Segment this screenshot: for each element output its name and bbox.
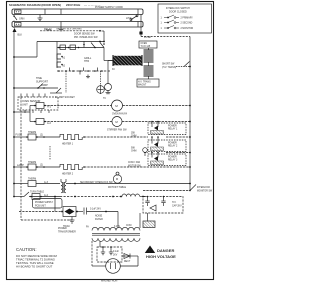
svg-text:0.1uF: 0.1uF: [113, 251, 119, 253]
svg-text:RELAY 1: RELAY 1: [168, 128, 178, 131]
svg-text:MOTOR SW: MOTOR SW: [128, 166, 142, 168]
svg-text:(2): (2): [40, 165, 43, 167]
svg-text:SCHEMATIC DIAGRAM (DOOR OPEN): SCHEMATIC DIAGRAM (DOOR OPEN): [9, 3, 61, 7]
svg-text:HIGH VOLTAGE: HIGH VOLTAGE: [146, 254, 176, 259]
svg-text:RELAY: RELAY: [44, 28, 52, 31]
svg-text:TURN TABLE: TURN TABLE: [30, 191, 45, 194]
svg-text:A1: A1: [62, 57, 66, 60]
svg-text:UNIT: UNIT: [22, 104, 28, 107]
svg-text:STIRRER FAN SW: STIRRER FAN SW: [107, 129, 127, 132]
svg-text:MONITOR SW: MONITOR SW: [197, 191, 213, 193]
svg-text:FA: FA: [86, 226, 89, 229]
svg-text:TC: TC: [103, 98, 106, 100]
svg-text:3.15V: 3.15V: [114, 226, 120, 228]
svg-text:COM: COM: [126, 225, 131, 227]
svg-text:POWER SUPPLY: POWER SUPPLY: [35, 202, 54, 204]
svg-text:2 PRIMARY: 2 PRIMARY: [181, 17, 194, 20]
svg-text:2 SECOND: 2 SECOND: [181, 23, 193, 25]
svg-text:A-1: A-1: [47, 106, 52, 109]
svg-text:A-3: A-3: [44, 181, 49, 184]
svg-text:MAGNETRON: MAGNETRON: [101, 280, 117, 283]
svg-text:DANGER: DANGER: [157, 248, 174, 253]
svg-text:SECONDARY INTERLOCK SW: SECONDARY INTERLOCK SW: [80, 181, 113, 184]
svg-text:POWER: POWER: [168, 157, 177, 159]
svg-text:A-2: A-2: [47, 122, 52, 125]
svg-text:FILTER: FILTER: [95, 219, 103, 221]
svg-text:1: 1: [161, 28, 163, 30]
svg-text:FUSE: FUSE: [144, 36, 151, 39]
svg-text:RELAY 2: RELAY 2: [168, 145, 178, 148]
svg-text:A2: A2: [62, 65, 66, 68]
svg-text:RECT: RECT: [124, 261, 131, 263]
svg-text:1: 1: [161, 18, 163, 20]
svg-text:THERM: THERM: [28, 179, 36, 181]
svg-text:POWER: POWER: [168, 143, 177, 145]
svg-text:220V 60Hz: 220V 60Hz: [66, 3, 81, 7]
svg-text:(H.V. TRANS): (H.V. TRANS): [162, 66, 176, 69]
svg-text:T.CO 145: T.CO 145: [141, 46, 151, 48]
svg-text:BLK: BLK: [18, 34, 23, 37]
svg-text:NOISE: NOISE: [95, 216, 103, 218]
svg-text:OVEN FAN FA: OVEN FAN FA: [112, 113, 128, 116]
svg-text:PRI. INTERLOCK SW: PRI. INTERLOCK SW: [74, 36, 98, 39]
svg-text:HEATER 1: HEATER 1: [62, 143, 74, 146]
svg-text:THERM: THERM: [28, 162, 36, 164]
svg-text:1 LAMP SOCKET: 1 LAMP SOCKET: [55, 96, 75, 99]
svg-text:A-4: A-4: [44, 194, 49, 197]
svg-text:33: 33: [112, 69, 115, 71]
svg-text:(2): (2): [40, 135, 43, 137]
svg-text:MOTOR T.TABLE: MOTOR T.TABLE: [108, 186, 126, 189]
svg-text:CAP 2KV: CAP 2KV: [172, 205, 182, 208]
svg-text:GRN: GRN: [19, 18, 25, 21]
svg-text:MAGNT: MAGNT: [138, 84, 147, 87]
svg-text:0.1uF 2KV: 0.1uF 2KV: [90, 209, 101, 211]
svg-text:CONV. FAN: CONV. FAN: [128, 161, 141, 164]
svg-text:TRANSFORMER: TRANSFORMER: [58, 231, 76, 234]
svg-text:H.V.: H.V.: [172, 202, 177, 204]
svg-text:HTR: HTR: [84, 60, 89, 63]
svg-text:POWER: POWER: [168, 126, 177, 128]
svg-text:POWER SUPPLY CORD: POWER SUPPLY CORD: [95, 6, 123, 9]
svg-text:M: M: [116, 177, 118, 181]
svg-text:OVEN: OVEN: [141, 43, 148, 45]
svg-text:M: M: [115, 104, 118, 108]
svg-text:90K: 90K: [131, 148, 136, 150]
svg-text:DOOR CLOSED: DOOR CLOSED: [169, 11, 187, 14]
svg-text:HV BOARD TO SHORT OUT: HV BOARD TO SHORT OUT: [16, 265, 53, 269]
svg-text:LINE: LINE: [126, 17, 132, 20]
svg-text:LAMP: LAMP: [17, 164, 24, 167]
svg-text:2KV: 2KV: [113, 255, 118, 257]
svg-text:INTERLOCK: INTERLOCK: [197, 187, 211, 189]
svg-text:H.V. TRANS: H.V. TRANS: [138, 81, 151, 84]
svg-text:THERM: THERM: [28, 132, 36, 134]
svg-text:2 MONITOR: 2 MONITOR: [181, 28, 194, 30]
svg-text:35K: 35K: [131, 133, 136, 135]
svg-text:PCB UNIT: PCB UNIT: [35, 206, 46, 208]
svg-text:CAUTION:: CAUTION:: [16, 247, 37, 252]
svg-text:. . . . .: . . . . .: [24, 109, 31, 112]
svg-text:OHM: OHM: [131, 136, 136, 138]
svg-text:POWER: POWER: [58, 228, 67, 230]
svg-text:FUSE: FUSE: [16, 134, 23, 137]
svg-text:HEATER 2: HEATER 2: [62, 173, 74, 176]
svg-text:LAMP: LAMP: [41, 84, 48, 87]
svg-text:1: 1: [161, 23, 163, 25]
svg-text:SHORT SW: SHORT SW: [162, 64, 175, 66]
svg-text:GRN WHT BLK ORN RED: GRN WHT BLK ORN RED: [56, 29, 82, 31]
svg-text:RELAY 3: RELAY 3: [168, 159, 178, 162]
svg-text:M: M: [115, 120, 118, 124]
svg-text:OHM: OHM: [131, 151, 136, 153]
